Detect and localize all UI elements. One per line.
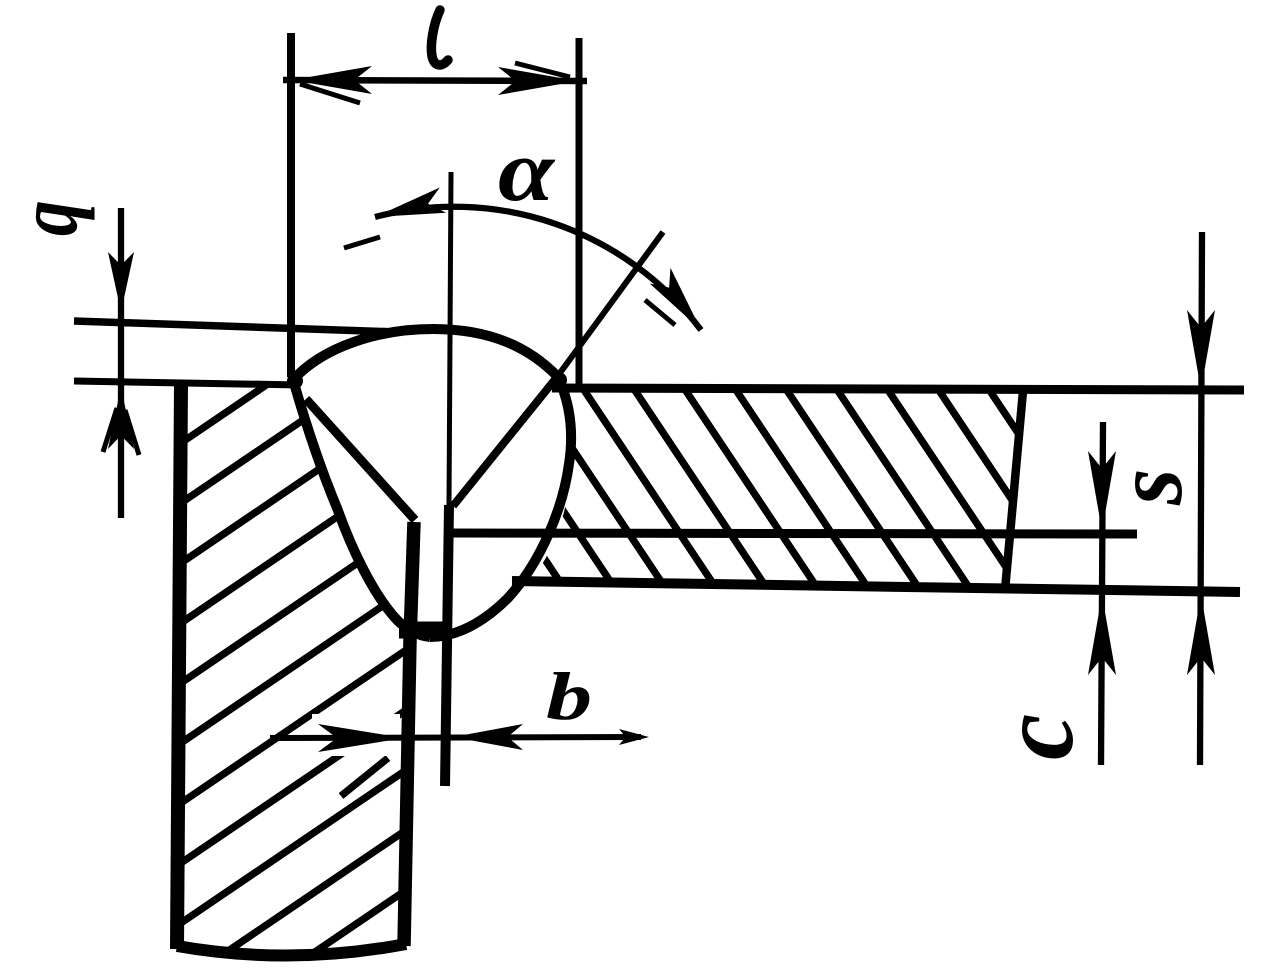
angle arc extra barbs (645, 287, 688, 325)
dimension b: dimension line (270, 737, 641, 738)
left plate hatching (150, 207, 440, 974)
svg-text:q: q (1, 200, 96, 236)
angle arc left arrowhead (375, 188, 446, 218)
white pocket around b dimension line (312, 714, 400, 756)
right plate bevel edge inside weld (453, 377, 557, 506)
right plate hatching (430, 0, 1100, 974)
angle arc right arrowhead (650, 268, 701, 330)
right plate top surface (552, 388, 1244, 390)
dimension s: inner dimension line (1101, 422, 1103, 765)
junction blob left (287, 373, 303, 389)
left plate left edge (177, 384, 181, 949)
weld root bead (bottom reinforcement band) (399, 622, 452, 639)
dimension s: outer up arrowhead (1187, 595, 1215, 675)
dimension s: inner down arrowhead (1088, 451, 1116, 531)
weld centerline (449, 172, 451, 505)
dimension q: extra barb strokes (103, 408, 139, 455)
angle arc left extra barb (344, 237, 380, 248)
dimension l: right extension line (576, 38, 583, 390)
left plate bevel edge inside weld (306, 399, 415, 520)
weld bead right/root boundary (430, 377, 571, 637)
right plate bottom surface (s reference line) (449, 533, 1137, 534)
dimension s: outer down arrowhead (1187, 310, 1215, 390)
dimension s/c: outer dimension line (1200, 232, 1202, 765)
dimension l: right arrowhead (498, 67, 578, 95)
dimension l: dimension line (283, 80, 587, 81)
dimension l: left arrowhead (292, 66, 372, 94)
svg-text:b: b (546, 658, 592, 734)
dimension b: left arrowhead (points right) (318, 724, 404, 752)
label l (script ell) (431, 10, 448, 65)
svg-text:α: α (498, 122, 556, 219)
dimension q: dimension line (118, 208, 124, 518)
left plate top surface / q extension line (74, 381, 300, 385)
weld bead left fusion boundary (294, 383, 430, 637)
right plate right edge (1005, 391, 1023, 590)
weld bead face (top arc) (292, 329, 558, 381)
dimension q: upper arrowhead (down) (108, 252, 134, 312)
right plate lower outline (c reference line) (512, 581, 1240, 592)
angle arc (375, 207, 701, 330)
dimension l: extra barb strokes (300, 63, 570, 103)
dimension b: small end arrowhead (619, 729, 649, 745)
bevel angle leg (extension of right bevel) (557, 232, 663, 377)
junction blob right (551, 372, 567, 388)
left plate right edge (404, 522, 414, 946)
dimension l: left extension line (287, 33, 295, 377)
dimension q: lower arrowhead (up) (108, 387, 134, 449)
root gap right wall / b extension line (445, 505, 449, 786)
q upper reference line (weld face tangent) (74, 321, 398, 332)
svg-text:c: c (977, 714, 1095, 760)
dimension s: inner up arrowhead (1088, 595, 1116, 675)
dimension b: right arrowhead (points left) (453, 724, 523, 750)
left plate bottom edge (177, 944, 406, 956)
